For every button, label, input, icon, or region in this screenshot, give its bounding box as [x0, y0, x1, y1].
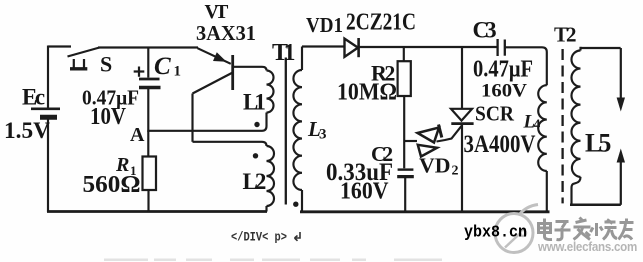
svg-text:0.47μF: 0.47μF: [473, 57, 533, 83]
svg-text:3AX31: 3AX31: [196, 21, 256, 45]
svg-text:SCR: SCR: [475, 101, 514, 125]
svg-text:1: 1: [174, 64, 182, 80]
svg-text:4: 4: [534, 117, 541, 132]
svg-text:VD: VD: [419, 154, 451, 178]
svg-text:160V: 160V: [481, 81, 527, 102]
svg-text:L5: L5: [585, 129, 611, 158]
svg-text:T2: T2: [554, 23, 576, 47]
svg-text:ybx8.cn: ybx8.cn: [464, 222, 527, 241]
svg-text:VD1: VD1: [306, 13, 343, 37]
svg-text:3A400V: 3A400V: [464, 131, 536, 158]
svg-text:3: 3: [319, 127, 327, 143]
svg-text:S: S: [100, 52, 112, 77]
svg-text:C3: C3: [473, 18, 497, 43]
svg-text:A: A: [130, 124, 145, 146]
svg-text:</DIV< p>: </DIV< p>: [231, 230, 287, 244]
svg-text:Ec: Ec: [22, 85, 45, 110]
svg-text:C: C: [154, 53, 171, 80]
svg-text:1.5V: 1.5V: [4, 118, 50, 143]
svg-text:www.elecfans.com: www.elecfans.com: [537, 239, 637, 254]
svg-text:L1: L1: [243, 89, 265, 114]
svg-text:10V: 10V: [90, 104, 127, 130]
svg-text:160V: 160V: [340, 179, 389, 205]
svg-text:VT: VT: [205, 1, 229, 23]
svg-text:T1: T1: [272, 40, 295, 66]
svg-text:560Ω: 560Ω: [83, 172, 141, 198]
svg-text:L2: L2: [243, 169, 266, 194]
svg-text:10MΩ: 10MΩ: [337, 79, 397, 105]
svg-text:2: 2: [452, 164, 459, 179]
svg-text:2CZ21C: 2CZ21C: [346, 8, 416, 35]
